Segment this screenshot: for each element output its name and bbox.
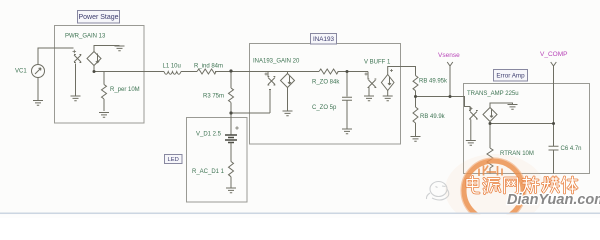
svg-text:R_ind 84m: R_ind 84m xyxy=(194,64,223,70)
svg-text:INA193: INA193 xyxy=(313,36,335,43)
svg-text:Error Amp: Error Amp xyxy=(496,73,525,80)
svg-text:TRANS_AMP 225u: TRANS_AMP 225u xyxy=(467,91,519,97)
svg-text:C6 4.7n: C6 4.7n xyxy=(561,146,582,152)
svg-text:V_COMP: V_COMP xyxy=(540,51,567,58)
svg-text:R_per 10M: R_per 10M xyxy=(110,87,140,93)
svg-text:V BUFF 1: V BUFF 1 xyxy=(364,60,391,66)
svg-text:R_ZO 84k: R_ZO 84k xyxy=(312,80,340,86)
svg-text:Vsense: Vsense xyxy=(438,52,460,59)
svg-text:V_D1 2.5: V_D1 2.5 xyxy=(196,132,222,138)
svg-text:R3 75m: R3 75m xyxy=(203,94,224,100)
svg-text:PWR_GAIN 13: PWR_GAIN 13 xyxy=(65,34,106,40)
svg-text:RB 49.95k: RB 49.95k xyxy=(419,79,448,85)
svg-text:VC1: VC1 xyxy=(15,69,27,75)
svg-text:C_ZO 5p: C_ZO 5p xyxy=(312,105,337,111)
svg-text:INA193_GAIN 20: INA193_GAIN 20 xyxy=(253,59,300,65)
svg-text:L1 10u: L1 10u xyxy=(163,64,181,70)
svg-text:DianYuan.com: DianYuan.com xyxy=(507,192,600,208)
svg-text:R_AC_D1 1: R_AC_D1 1 xyxy=(192,169,225,175)
svg-text:RB 49.9k: RB 49.9k xyxy=(420,114,446,120)
svg-text:Power Stage: Power Stage xyxy=(78,14,118,21)
svg-text:LED: LED xyxy=(168,157,179,163)
